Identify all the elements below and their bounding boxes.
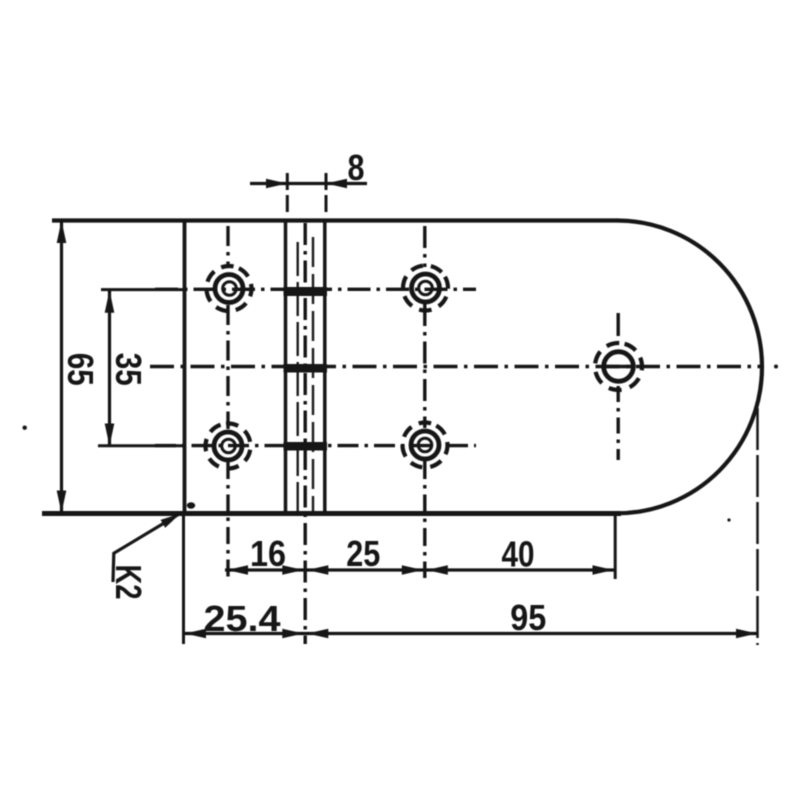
centerline hole column 1, segment between holes (226, 305, 229, 429)
svg-text:65: 65 (60, 353, 101, 386)
dimension 8: right extension line (dashed) (325, 173, 328, 214)
centerline hole row upper (dash-dot) (155, 288, 476, 291)
dimension 35: top extension line (101, 288, 186, 291)
hole H5 right: outer circle (604, 352, 634, 382)
centerline hole column 2, segment above upper hole (423, 226, 426, 267)
hole H1 upper-left: outer circle (215, 275, 243, 303)
dimension 65: dimension line (60, 221, 63, 514)
svg-text:40: 40 (502, 534, 535, 575)
dimension 40: left arrow at column-2 line (427, 565, 448, 575)
hole H2 upper-middle: outer circle (412, 274, 440, 302)
svg-text:8: 8 (348, 147, 365, 188)
svg-text:25: 25 (346, 533, 380, 574)
extension line at right tangent x=757 (756, 408, 759, 645)
hole H3 lower-left: outer circle (214, 432, 242, 460)
centerline hole column 2, segment below lower hole (423, 461, 426, 578)
speck right lower (727, 518, 730, 521)
hole H4 lower-middle: outer circle (411, 431, 439, 459)
hinge barrel left line (284, 221, 288, 514)
svg-text:35: 35 (108, 353, 149, 386)
centerline right hole, segment below (617, 386, 620, 460)
dimension 8: left extension line (dashed) (286, 173, 289, 214)
extension line below column-3 hole at x=615 (614, 511, 617, 579)
hole H2 dashed circle (395, 257, 456, 318)
leader K2 arrow (161, 514, 181, 528)
ink blob inside plate bottom-left corner (187, 502, 195, 508)
plate top edge with 65-dimension top extension line (52, 218, 618, 222)
hole H1 inner countersink circle (223, 282, 237, 296)
svg-text:K2: K2 (108, 565, 149, 600)
hole H3 inner countersink circle (222, 439, 236, 453)
dimension 95: left arrow at pin line (307, 629, 328, 639)
hole H5 horizontal screw slot (603, 365, 634, 369)
dimension 25.4: right arrow at pin line (282, 629, 303, 639)
hole H4 inner countersink circle (418, 438, 432, 452)
dimension 65: bottom arrow (57, 491, 67, 514)
dimension 25: left arrow at pin line (307, 565, 328, 575)
hinge pin centerline (vertical dash-dot) (304, 223, 307, 644)
dimension 65: top arrow (57, 221, 67, 244)
extension line below plate left edge (182, 514, 185, 644)
dimension 8: dimension line (250, 182, 367, 185)
plate rounded right end (semicircle) (617, 221, 762, 514)
dimension 35: top arrow (105, 290, 115, 313)
hinge barrel inner left leaf line (297, 242, 299, 511)
hinge barrel inner right leaf line (312, 237, 314, 511)
dimension 16: left arrow (227, 565, 248, 575)
hole H3 dashed circle (204, 422, 253, 471)
svg-text:25.4: 25.4 (204, 598, 281, 639)
centerline main horizontal axis (dash-dot) (150, 365, 762, 368)
hole H2 inner countersink circle (419, 281, 433, 295)
speck left margin (23, 426, 27, 430)
dimension 95: right arrow (736, 629, 757, 639)
dimensions 16 / 25 / 40: shared dimension line (225, 568, 614, 571)
hole H1 dashed circle (199, 258, 259, 318)
centerline hole row lower (dash-dot) (155, 444, 476, 447)
centerline hole column 2, segment between holes (423, 304, 426, 428)
centerline hole column 1, segment below lower hole (226, 462, 229, 581)
knuckle separator band upper (284, 287, 328, 296)
centerline right hole, segment above (617, 313, 620, 342)
dimension 8: right arrow (outside, pointing left) (326, 179, 347, 189)
plate left edge (183, 219, 187, 514)
dimension 40: right arrow (593, 565, 614, 575)
svg-text:16: 16 (250, 533, 286, 574)
dimension 35: dimension line (108, 290, 111, 446)
hinge barrel right line (323, 221, 327, 514)
hole H4 dashed circle (394, 414, 455, 475)
dimension 25: right arrow at column-2 line (402, 565, 423, 575)
hole H5 dashed circle (590, 338, 648, 396)
plate bottom edge with 65-dimension bottom extension line (42, 511, 621, 516)
dimension 35: bottom arrow (105, 424, 115, 447)
dimension 16: right arrow at pin line (282, 565, 303, 575)
dimension 8: left arrow (outside, pointing right) (266, 179, 287, 189)
dot of main axis centerline beyond arc (774, 365, 778, 369)
dimension 35: bottom extension line (98, 444, 186, 447)
centerline hole column 1, segment above upper hole (226, 226, 229, 268)
svg-text:95: 95 (510, 597, 546, 638)
dimension 25.4: left arrow (185, 629, 206, 639)
leader line K2 (113, 514, 180, 583)
knuckle separator band lower (284, 442, 328, 451)
knuckle separator band middle (284, 364, 328, 373)
dimensions 25.4 / 95: shared dimension line (184, 632, 757, 635)
